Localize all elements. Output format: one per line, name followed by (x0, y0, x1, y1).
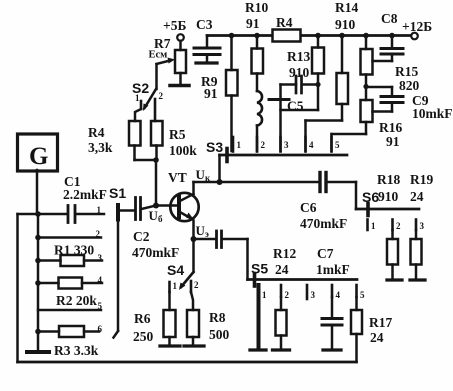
svg-text:R17: R17 (369, 315, 392, 330)
svg-text:R13: R13 (287, 49, 310, 64)
svg-text:2: 2 (285, 290, 290, 300)
svg-text:Есм: Есм (149, 50, 168, 61)
svg-text:R16: R16 (379, 120, 402, 135)
svg-text:+12Б: +12Б (402, 19, 432, 34)
svg-text:S4: S4 (167, 262, 184, 278)
+12B terminal (402, 19, 432, 39)
svg-text:1: 1 (97, 205, 102, 215)
switch S2 (132, 64, 164, 121)
bottom common rail (18, 361, 357, 364)
left inner bus wire (27, 214, 49, 352)
svg-text:U: U (196, 223, 206, 238)
capacitor C3 (194, 17, 220, 63)
resistor R10 91 (245, 0, 268, 91)
resistor R15 820 (361, 33, 420, 100)
switch S1 pole and wiper (109, 185, 126, 338)
svg-text:R3 3.3k: R3 3.3k (54, 343, 99, 358)
svg-text:C3: C3 (196, 17, 213, 32)
svg-text:4: 4 (336, 290, 341, 300)
svg-text:2: 2 (159, 91, 164, 101)
capacitor C1 2.2mkF (18, 174, 107, 223)
svg-text:C2: C2 (133, 229, 150, 244)
svg-text:1: 1 (237, 140, 242, 150)
svg-text:6: 6 (98, 324, 103, 334)
resistor R13 910 (287, 33, 324, 110)
svg-text:1: 1 (135, 93, 140, 103)
svg-text:C8: C8 (381, 11, 398, 26)
collector wire (Uk line) (194, 181, 357, 184)
svg-text:G: G (29, 143, 48, 170)
svg-text:2: 2 (194, 280, 199, 290)
resistor R17 24 (351, 297, 392, 362)
switch S4 (167, 262, 199, 292)
inductor coil below R10 (257, 91, 262, 151)
svg-text:C6: C6 (300, 200, 317, 215)
svg-text:1: 1 (173, 281, 178, 291)
resistor R3 3.3k (S1 contact line 6) (35, 324, 102, 358)
svg-text:910: 910 (289, 65, 310, 80)
capacitor C2 470mkF (119, 198, 179, 261)
resistor R8 500 (184, 292, 230, 346)
svg-text:3,3k: 3,3k (88, 140, 113, 155)
wire joining R4/R5 bottoms, down to base node (135, 157, 159, 205)
resistor R18 910 (377, 172, 402, 280)
svg-text:1: 1 (371, 221, 376, 231)
svg-text:R12: R12 (273, 246, 296, 261)
svg-text:24: 24 (370, 330, 384, 345)
svg-text:2: 2 (261, 140, 266, 150)
svg-text:4: 4 (98, 275, 103, 285)
resistor R4 3,3k (88, 121, 141, 160)
svg-text:910: 910 (335, 17, 356, 32)
S1 contact line 5 (38, 301, 103, 311)
svg-text:3: 3 (420, 221, 425, 231)
resistor R4 (horizontal, top bus) (273, 15, 301, 42)
switch S6 (356, 182, 425, 231)
svg-text:R14: R14 (335, 0, 358, 15)
resistor R19 24 (410, 172, 433, 280)
capacitor C7 1mkF (316, 246, 350, 350)
svg-text:910: 910 (378, 189, 399, 204)
svg-text:3: 3 (284, 140, 289, 150)
switch S3 (206, 137, 347, 185)
switch S5 (248, 261, 366, 301)
svg-text:R15: R15 (395, 64, 418, 79)
potentiometer R7 (154, 36, 186, 83)
svg-text:R5: R5 (169, 127, 186, 142)
resistor R12 24 (273, 246, 297, 350)
ground bar below R7 (170, 84, 189, 88)
capacitor C9 10mkF (366, 87, 453, 121)
svg-text:24: 24 (410, 189, 424, 204)
svg-text:б: б (158, 214, 163, 224)
svg-text:U: U (196, 167, 206, 182)
svg-text:S3: S3 (206, 139, 223, 155)
resistor R1 330 (S1 contact line 3) (35, 243, 102, 267)
svg-text:R10: R10 (245, 0, 268, 15)
svg-text:S6: S6 (362, 189, 379, 205)
svg-text:R19: R19 (410, 172, 433, 187)
svg-text:1mkF: 1mkF (316, 262, 350, 277)
S5 contact 1 wire to ground (250, 285, 266, 350)
svg-text:VT: VT (168, 170, 187, 185)
svg-text:2: 2 (396, 221, 401, 231)
transistor VT (156, 170, 199, 272)
emitter node dot and coupling capacitor to S5 (191, 231, 248, 280)
svg-text:820: 820 (399, 78, 420, 93)
top supply bus (+12B rail) (207, 34, 411, 37)
svg-text:470mkF: 470mkF (132, 245, 179, 260)
svg-text:250: 250 (133, 329, 154, 344)
svg-text:5: 5 (335, 140, 340, 150)
svg-text:R18: R18 (377, 172, 400, 187)
resistor R16 91 (332, 100, 403, 151)
svg-text:R8: R8 (209, 310, 226, 325)
resistor R6 250 (133, 292, 180, 346)
svg-text:R4: R4 (88, 125, 105, 140)
svg-text:1: 1 (262, 290, 267, 300)
S1 contact line 2 (35, 229, 101, 240)
svg-text:R2 20k: R2 20k (56, 293, 97, 308)
svg-text:2.2mkF: 2.2mkF (63, 187, 107, 202)
svg-text:э: э (205, 229, 209, 239)
svg-text:2: 2 (96, 229, 101, 239)
svg-text:470mkF: 470mkF (300, 216, 347, 231)
svg-text:91: 91 (386, 134, 400, 149)
svg-text:100k: 100k (169, 143, 197, 158)
svg-text:10mkF: 10mkF (412, 106, 453, 121)
Ecm wiper arrow of R7 (149, 50, 176, 65)
svg-text:4: 4 (309, 140, 314, 150)
svg-text:U: U (149, 208, 159, 223)
svg-text:R6: R6 (134, 311, 151, 326)
svg-text:500: 500 (209, 327, 230, 342)
+5B terminal (163, 18, 186, 50)
capacitor C6 470mkF (300, 173, 347, 232)
svg-text:C7: C7 (317, 246, 334, 261)
svg-text:R4: R4 (276, 15, 293, 30)
resistor R9 91 (201, 33, 238, 151)
svg-text:+5Б: +5Б (163, 18, 186, 33)
resistor R14 910 (306, 0, 359, 151)
svg-text:3: 3 (311, 290, 316, 300)
resistor R5 100k (151, 121, 197, 160)
left outer bus wire (16, 214, 19, 362)
svg-text:5: 5 (360, 290, 365, 300)
generator G box (18, 134, 58, 214)
resistor R2 20k (S1 contact line 4) (35, 275, 102, 308)
svg-text:91: 91 (246, 16, 260, 31)
svg-text:5: 5 (98, 301, 103, 311)
svg-text:S1: S1 (109, 185, 126, 201)
capacitor C8 (373, 11, 404, 61)
capacitor C5 (269, 76, 318, 151)
svg-text:24: 24 (275, 262, 289, 277)
svg-text:3: 3 (98, 253, 103, 263)
svg-text:91: 91 (204, 86, 218, 101)
